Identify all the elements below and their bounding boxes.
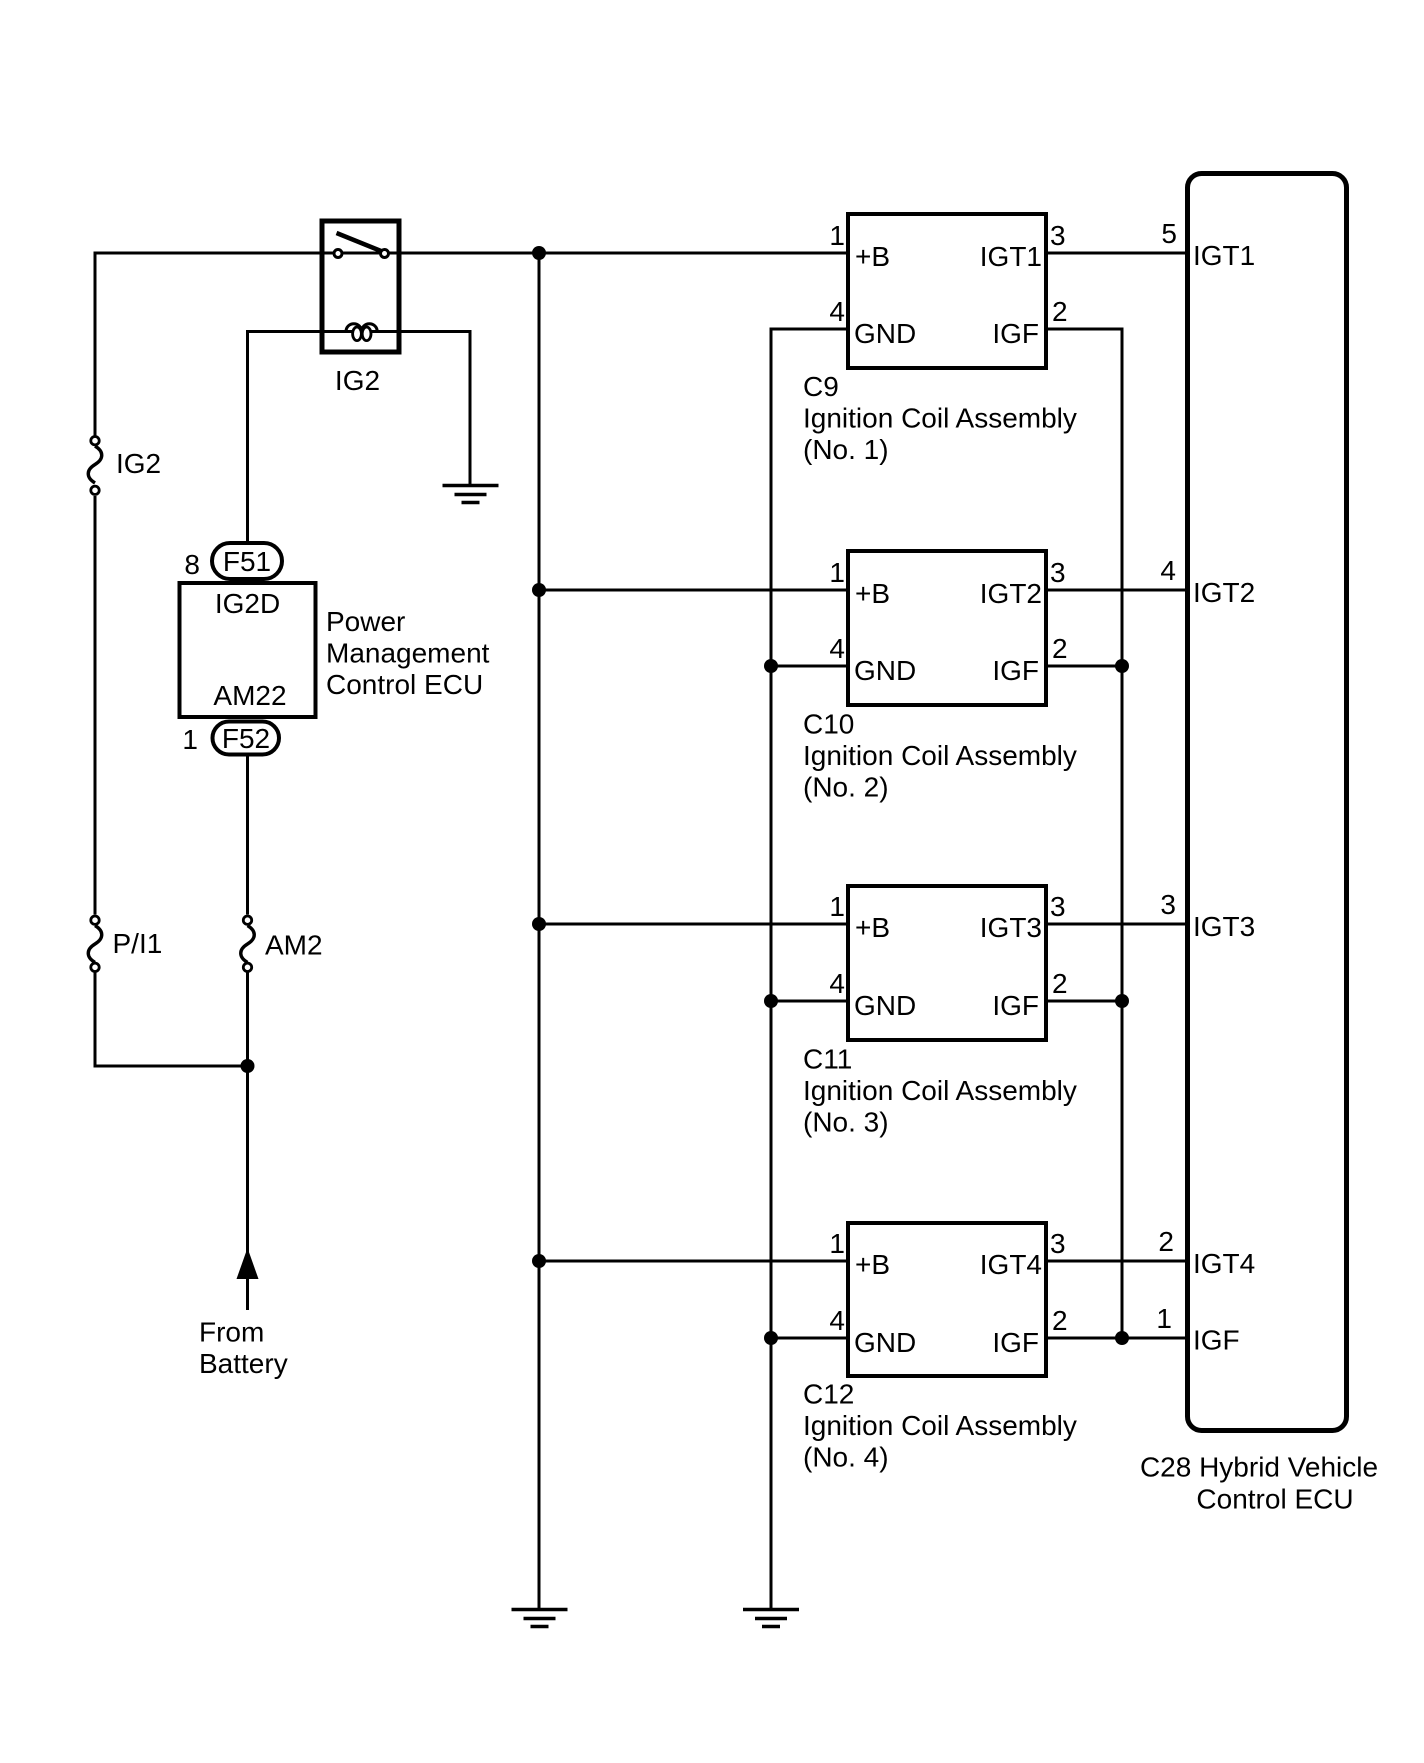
svg-text:(No. 1): (No. 1) — [803, 434, 889, 465]
fuse AM2 — [241, 916, 255, 972]
svg-text:F52: F52 — [222, 723, 270, 754]
wire: C10 +B branch — [539, 589, 850, 592]
junction: +B bus / C10 — [532, 583, 546, 597]
svg-text:2: 2 — [1052, 296, 1068, 327]
ignition coil assembly C10 — [848, 551, 1046, 705]
svg-text:1: 1 — [182, 724, 198, 755]
svg-text:GND: GND — [854, 1327, 916, 1358]
junction: GND bus / C11 — [764, 994, 778, 1008]
wire: C11 +B branch — [539, 923, 850, 926]
svg-text:(No. 4): (No. 4) — [803, 1442, 889, 1473]
svg-text:IGT4: IGT4 — [1193, 1248, 1255, 1279]
svg-text:IGT2: IGT2 — [980, 578, 1042, 609]
svg-text:3: 3 — [1050, 557, 1066, 588]
wire: C9 GND pin to GND bus — [771, 329, 850, 1609]
wire: C9 IGF pin to IGF bus — [1044, 329, 1122, 1338]
wire: IGT1 C9 to ECU — [1044, 252, 1190, 255]
svg-text:4: 4 — [1160, 555, 1176, 586]
wire: C12 +B branch — [539, 1260, 850, 1263]
svg-text:8: 8 — [184, 549, 200, 580]
svg-text:4: 4 — [829, 968, 845, 999]
svg-text:Management: Management — [326, 638, 490, 669]
svg-text:3: 3 — [1160, 889, 1176, 920]
wire: IGT4 C12 to ECU — [1044, 1260, 1190, 1263]
wire: C10 GND branch — [771, 665, 850, 668]
svg-text:+B: +B — [855, 912, 890, 943]
junction: +B bus / C11 — [532, 917, 546, 931]
svg-text:2: 2 — [1052, 1305, 1068, 1336]
svg-text:IGF: IGF — [992, 655, 1039, 686]
svg-text:Ignition Coil Assembly: Ignition Coil Assembly — [803, 1075, 1077, 1106]
label Power Management Control ECU — [326, 606, 490, 700]
wire: C12 GND branch — [771, 1337, 850, 1340]
svg-text:C10: C10 — [803, 709, 854, 740]
svg-text:IGT3: IGT3 — [980, 912, 1042, 943]
svg-text:IG2: IG2 — [335, 365, 380, 396]
svg-text:+B: +B — [855, 1249, 890, 1280]
label C11 Ignition Coil Assembly (No. 3) — [803, 1044, 1077, 1138]
wire: IGT2 C10 to ECU — [1044, 589, 1190, 592]
svg-text:1: 1 — [1156, 1303, 1172, 1334]
svg-text:IGF: IGF — [992, 990, 1039, 1021]
svg-text:AM22: AM22 — [213, 680, 286, 711]
wire: +B bus vertical — [538, 253, 541, 1609]
svg-text:3: 3 — [1050, 220, 1066, 251]
wire: AM2 to battery junction — [246, 973, 249, 1067]
svg-text:IG2: IG2 — [116, 448, 161, 479]
svg-text:(No. 3): (No. 3) — [803, 1107, 889, 1138]
svg-text:+B: +B — [855, 241, 890, 272]
connector F52 — [213, 722, 280, 755]
junction: relay output / +B bus — [532, 246, 546, 260]
junction: GND bus / C12 — [764, 1331, 778, 1345]
svg-text:C12: C12 — [803, 1379, 854, 1410]
ignition coil assembly C9 — [848, 214, 1046, 368]
label C12 Ignition Coil Assembly (No. 4) — [803, 1379, 1077, 1473]
svg-text:IGT4: IGT4 — [980, 1249, 1042, 1280]
svg-text:C9: C9 — [803, 371, 839, 402]
ground: relay coil — [443, 486, 499, 503]
wire: from battery stub — [246, 1066, 249, 1310]
ECU C28 hybrid vehicle control ECU box — [1188, 174, 1347, 1431]
svg-text:GND: GND — [854, 655, 916, 686]
wire: C12 IGF pin to ECU IGF pin — [1044, 1337, 1190, 1340]
svg-text:GND: GND — [854, 318, 916, 349]
svg-text:Control ECU: Control ECU — [1196, 1484, 1353, 1515]
junction: +B bus / C12 — [532, 1254, 546, 1268]
svg-text:1: 1 — [829, 220, 845, 251]
junction: IGF bus / C11 — [1115, 994, 1129, 1008]
svg-text:C28 Hybrid Vehicle: C28 Hybrid Vehicle — [1140, 1452, 1378, 1483]
wire: P/I1 to battery junction — [95, 973, 248, 1067]
wire: C10 IGF branch — [1044, 665, 1122, 668]
ignition coil assembly C11 — [848, 886, 1046, 1040]
svg-text:(No. 2): (No. 2) — [803, 772, 889, 803]
junction: GND bus / C10 — [764, 659, 778, 673]
arrow: from battery — [237, 1248, 259, 1279]
wire: fuse IG2 to fuse P/I1 — [94, 496, 97, 915]
wire: IGT3 C11 to ECU — [1044, 923, 1190, 926]
svg-text:IGF: IGF — [1193, 1325, 1240, 1356]
svg-text:IGF: IGF — [992, 1327, 1039, 1358]
svg-text:2: 2 — [1052, 633, 1068, 664]
ground: +B bus bottom — [512, 1610, 568, 1627]
svg-text:4: 4 — [829, 296, 845, 327]
svg-text:Control ECU: Control ECU — [326, 669, 483, 700]
label C10 Ignition Coil Assembly (No. 2) — [803, 709, 1077, 803]
svg-text:4: 4 — [829, 1305, 845, 1336]
svg-text:Power: Power — [326, 606, 405, 637]
svg-text:IGT1: IGT1 — [980, 241, 1042, 272]
relay IG2 — [322, 221, 399, 352]
wire: relay input from fuse IG2 branch — [95, 253, 321, 436]
ground: GND bus bottom — [743, 1610, 799, 1627]
label C28 Hybrid Vehicle Control ECU — [1140, 1452, 1378, 1515]
svg-text:From: From — [199, 1317, 264, 1348]
svg-text:Ignition Coil Assembly: Ignition Coil Assembly — [803, 740, 1077, 771]
svg-text:4: 4 — [829, 633, 845, 664]
connector F51 — [212, 543, 282, 579]
svg-text:IGT2: IGT2 — [1193, 577, 1255, 608]
svg-text:AM2: AM2 — [265, 930, 323, 961]
svg-text:3: 3 — [1050, 891, 1066, 922]
fuse P/I1 — [88, 916, 102, 972]
svg-text:F51: F51 — [223, 546, 271, 577]
wire: relay coil to connector F51 — [248, 332, 323, 544]
svg-text:1: 1 — [829, 891, 845, 922]
svg-text:3: 3 — [1050, 1228, 1066, 1259]
svg-text:P/I1: P/I1 — [113, 928, 163, 959]
wire: relay coil to ground — [399, 332, 470, 485]
fuse IG2 — [88, 437, 102, 495]
svg-text:IGT3: IGT3 — [1193, 911, 1255, 942]
junction: IGF bus / C12 / ECU — [1115, 1331, 1129, 1345]
svg-text:+B: +B — [855, 578, 890, 609]
svg-text:Ignition Coil Assembly: Ignition Coil Assembly — [803, 403, 1077, 434]
label From Battery — [199, 1317, 288, 1380]
svg-text:1: 1 — [829, 557, 845, 588]
wire: C11 GND branch — [771, 1000, 850, 1003]
junction: IGF bus / C10 — [1115, 659, 1129, 673]
wire: C11 IGF branch — [1044, 1000, 1122, 1003]
svg-text:2: 2 — [1158, 1226, 1174, 1257]
svg-text:C11: C11 — [803, 1044, 852, 1075]
svg-text:IGF: IGF — [992, 318, 1039, 349]
svg-text:5: 5 — [1161, 218, 1177, 249]
label C9 Ignition Coil Assembly (No. 1) — [803, 371, 1077, 465]
ignition coil assembly C12 — [848, 1223, 1046, 1376]
junction: battery feed — [241, 1059, 255, 1073]
power management control ECU box — [180, 583, 316, 717]
wire: relay output to C9 +B pin — [400, 252, 850, 255]
svg-text:Battery: Battery — [199, 1348, 288, 1379]
svg-text:GND: GND — [854, 990, 916, 1021]
svg-text:1: 1 — [829, 1228, 845, 1259]
svg-text:2: 2 — [1052, 968, 1068, 999]
svg-text:Ignition Coil Assembly: Ignition Coil Assembly — [803, 1410, 1077, 1441]
svg-text:IG2D: IG2D — [215, 588, 280, 619]
svg-text:IGT1: IGT1 — [1193, 240, 1255, 271]
wire: F52 to fuse AM2 — [246, 756, 249, 915]
